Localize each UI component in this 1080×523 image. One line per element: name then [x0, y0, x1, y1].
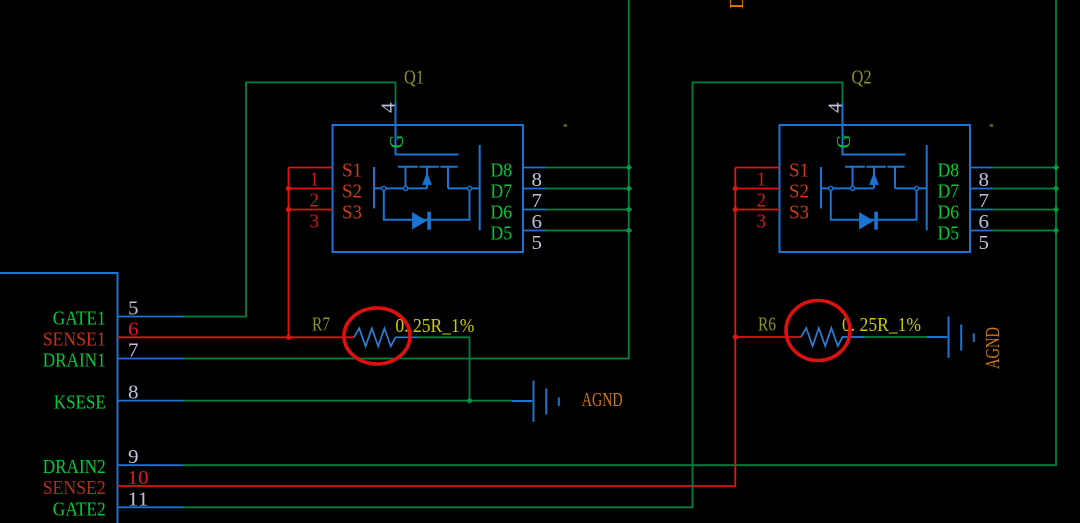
connector U3 body (left component) [0, 273, 118, 523]
marker dot near Q1 [564, 124, 568, 127]
wire GATE1 net [183, 82, 396, 316]
wire Q1 drain stubs to bus [546, 164, 633, 234]
svg-text:11: 11 [128, 488, 149, 510]
pin SENSE1 (6) [43, 318, 139, 350]
svg-text:5: 5 [128, 298, 139, 320]
resistor R6 [801, 328, 865, 346]
wire KSESE net [183, 397, 512, 404]
resistor R7 [354, 328, 418, 346]
wire SENSE2 net (red) [118, 168, 780, 487]
junction dots on drain bus [626, 164, 633, 171]
svg-text:8: 8 [128, 382, 139, 404]
svg-text:AGND: AGND [582, 389, 623, 411]
wire R6 left (red) [735, 336, 801, 338]
highlight ellipse on R6 [786, 301, 850, 361]
svg-text:AGND: AGND [982, 327, 1004, 369]
svg-text:Q1: Q1 [404, 67, 424, 89]
wire DRAIN2 net [183, 0, 1056, 465]
pin SENSE2 (10) [43, 467, 149, 499]
transistor Q2 [757, 102, 993, 254]
wire SENSE1 net (red, highlighted) [118, 335, 355, 340]
pin KSESE (8) [54, 382, 183, 414]
svg-text:DRAIN1: DRAIN1 [43, 350, 106, 372]
wire Q2 drain stubs to bus [993, 164, 1060, 234]
svg-text:9: 9 [128, 446, 139, 468]
svg-text:Q2: Q2 [852, 67, 872, 89]
pin DRAIN1 (7) [43, 340, 183, 372]
svg-text:0. 25R_1%: 0. 25R_1% [842, 314, 921, 336]
highlight ellipse on R7 [344, 308, 410, 364]
svg-text:D: D [726, 0, 748, 9]
svg-text:SENSE1: SENSE1 [43, 328, 106, 350]
svg-text:7: 7 [128, 340, 139, 362]
ground AGND (left) [512, 381, 559, 422]
svg-text:DRAIN2: DRAIN2 [43, 456, 106, 478]
svg-text:SENSE2: SENSE2 [43, 477, 106, 499]
svg-text:R7: R7 [312, 314, 330, 336]
wire R6 to AGND [865, 336, 928, 338]
pin GATE2 (11) [53, 488, 183, 520]
pin GATE1 (5) [53, 298, 183, 330]
marker dot near Q2 [990, 124, 994, 127]
wire R7 to KSESE [418, 337, 470, 400]
pin DRAIN2 (9) [43, 446, 183, 478]
svg-text:GATE2: GATE2 [53, 498, 106, 520]
ground AGND (right) [927, 317, 974, 358]
svg-text:KSESE: KSESE [54, 392, 106, 414]
wire Q1 source riser (red) [286, 168, 333, 338]
svg-text:GATE1: GATE1 [53, 308, 106, 330]
transistor Q1 [310, 102, 546, 254]
wire DRAIN1 net [183, 0, 629, 359]
wire GATE2 net [183, 82, 843, 507]
svg-text:R6: R6 [758, 314, 776, 336]
